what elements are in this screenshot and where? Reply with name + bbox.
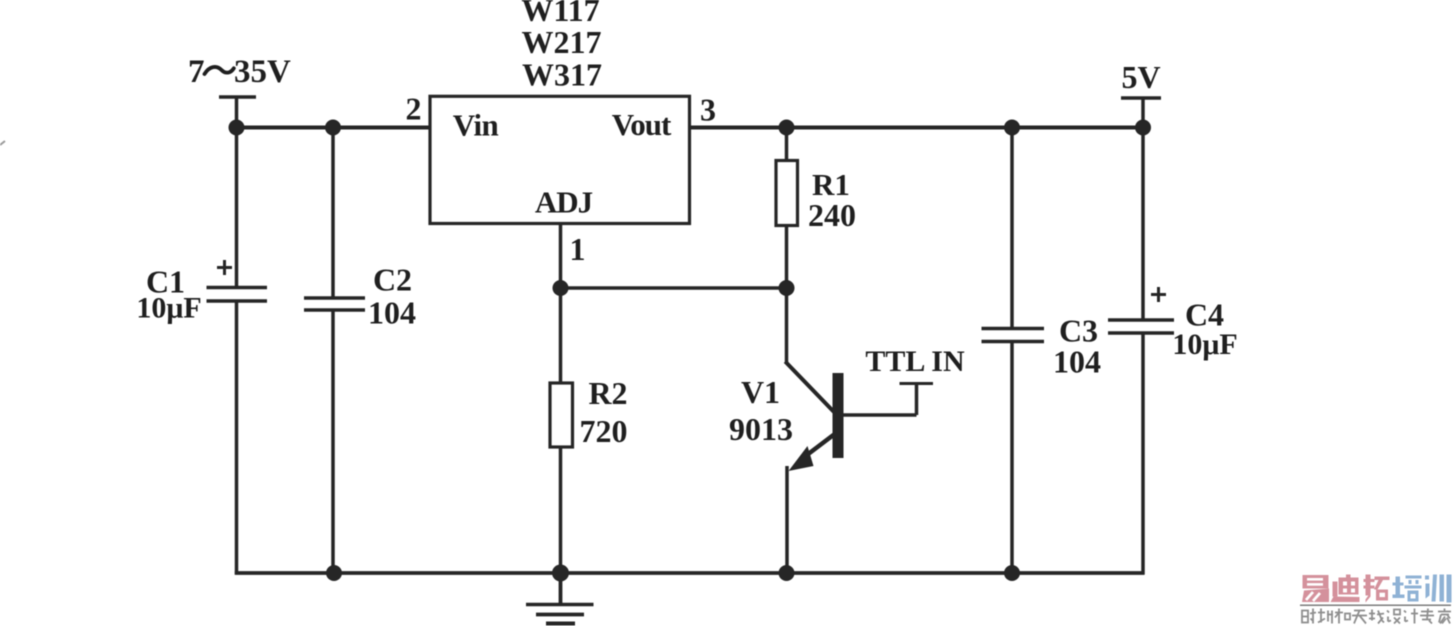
- wire: C4 bottom to bottom rail: [1141, 333, 1145, 575]
- svg-text:1: 1: [570, 231, 586, 267]
- watermark tagline char Jia: [1438, 609, 1451, 624]
- wire: input stub down to top rail: [235, 97, 239, 130]
- capacitor C2: [304, 298, 365, 310]
- capacitor C4 (electrolytic, + top): [1108, 287, 1174, 333]
- wire: 5V stub down: [1141, 98, 1145, 128]
- svg-text:V1: V1: [741, 374, 780, 410]
- wire: ADJ junction to R1 junction: [561, 286, 787, 290]
- svg-text:5V: 5V: [1121, 59, 1160, 95]
- junction dot: C2 top: [325, 120, 341, 136]
- wire: R2 top lead: [559, 288, 563, 383]
- svg-text:35V: 35V: [234, 54, 291, 90]
- junction dot: R1 top: [779, 120, 795, 136]
- svg-text:10μF: 10μF: [136, 292, 201, 325]
- svg-text:2: 2: [406, 91, 422, 127]
- transistor V1 emitter diagonal with arrow: [789, 435, 835, 472]
- watermark tagline char Pin: [1318, 609, 1333, 624]
- regulator U1 box W117/W217/W317: [430, 96, 690, 223]
- wire: R1 top lead: [785, 128, 789, 162]
- junction dot: C2 bottom: [326, 565, 342, 581]
- watermark logo glyph Pei: [1393, 576, 1422, 602]
- watermark logo underline: [1300, 604, 1451, 606]
- watermark logo glyph Tuo: [1364, 575, 1390, 603]
- capacitor C1 (electrolytic, + top): [207, 260, 268, 301]
- stray mark at left edge: [0, 141, 5, 145]
- wire: C3 branch top: [1010, 128, 1014, 329]
- transistor V1 collector diagonal: [785, 362, 834, 413]
- junction dot: input top rail left: [229, 120, 245, 136]
- watermark tagline char She: [1302, 609, 1316, 624]
- wire: R1 bottom lead: [785, 226, 789, 289]
- svg-text:104: 104: [1053, 344, 1101, 380]
- wire: top rail left segment: [237, 126, 432, 130]
- watermark logo glyph Yi: [1302, 575, 1329, 602]
- junction dot: C3 top: [1004, 120, 1020, 136]
- watermark tagline char He: [1335, 609, 1350, 624]
- wire: C1 bottom to bottom rail: [235, 301, 239, 575]
- capacitor C3: [982, 329, 1045, 342]
- wire: base lead horizontal: [844, 413, 917, 417]
- svg-text:10μF: 10μF: [1172, 328, 1237, 361]
- junction dot: C3 bottom: [1004, 565, 1020, 581]
- wire: TTL IN T-bar terminal: [900, 382, 934, 385]
- wire: C3 branch bottom: [1010, 342, 1014, 574]
- svg-text:ADJ: ADJ: [535, 185, 593, 220]
- watermark tagline char Xian: [1369, 610, 1384, 624]
- watermark logo glyph Di: [1331, 575, 1360, 603]
- svg-text:W317: W317: [522, 57, 602, 93]
- svg-text:9013: 9013: [729, 411, 793, 447]
- watermark logo glyph Xun: [1425, 575, 1452, 603]
- svg-text:R2: R2: [588, 375, 627, 411]
- wire: R2 bottom lead: [559, 447, 563, 573]
- ground: [526, 573, 594, 624]
- svg-text:7: 7: [188, 54, 205, 90]
- junction dot: ADJ node: [553, 280, 569, 296]
- label 7~35V: [188, 54, 291, 90]
- svg-text:TTL IN: TTL IN: [865, 345, 965, 378]
- svg-text:720: 720: [580, 413, 628, 449]
- wire: ADJ pin down: [559, 224, 563, 289]
- resistor R2: [550, 383, 573, 447]
- junction dot: ground node: [552, 565, 569, 582]
- wire: emitter lead down: [785, 466, 789, 573]
- svg-text:Vout: Vout: [612, 107, 672, 142]
- wire: top rail right segment (Vout to 5V): [689, 126, 1143, 130]
- svg-text:240: 240: [808, 197, 856, 233]
- watermark tagline char Ji: [1404, 609, 1418, 624]
- svg-text:W217: W217: [522, 24, 602, 60]
- junction dot: emitter bottom: [779, 565, 795, 581]
- wire: C2 branch bottom: [331, 310, 335, 573]
- wire: base lead vertical up: [915, 384, 919, 416]
- wire: C2 branch top: [331, 128, 335, 299]
- svg-text:104: 104: [368, 295, 416, 331]
- watermark tagline char Tian: [1352, 611, 1367, 624]
- svg-text:3: 3: [700, 92, 716, 128]
- resistor R1: [776, 161, 798, 226]
- svg-text:Vin: Vin: [453, 108, 499, 143]
- watermark tagline char Zhuan: [1420, 609, 1434, 624]
- wire: right rail down to C4: [1141, 128, 1145, 321]
- wire: 5V T-bar terminal: [1121, 96, 1161, 99]
- junction dot: 5V rail: [1135, 120, 1151, 136]
- watermark tagline char She2: [1387, 610, 1400, 624]
- wire: bottom rail: [235, 571, 1145, 575]
- wire: collector lead down: [785, 288, 789, 364]
- wire: left rail down to C1: [235, 128, 239, 289]
- transistor V1 base bar: [833, 373, 844, 458]
- svg-text:C2: C2: [373, 262, 412, 298]
- junction dot: R1 bottom node: [779, 280, 795, 296]
- wire: input T-bar terminal 7~35V: [219, 95, 256, 99]
